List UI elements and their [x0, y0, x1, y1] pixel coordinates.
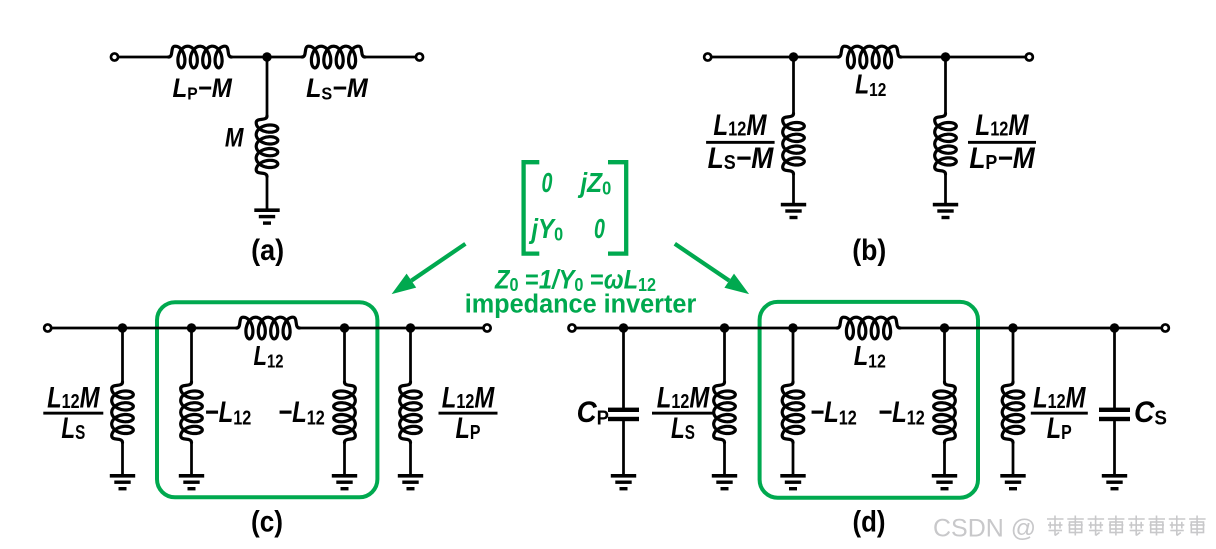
wire from input port to inductor LP-M [119, 56, 169, 59]
node: left junction (circuit b) [789, 52, 798, 61]
wire from shunt inductor to ground (circuit b left) [792, 174, 795, 204]
svg-text:M: M [225, 124, 245, 153]
value label fraction L12M over LP [439, 381, 498, 445]
value label -L12 (circuit c right) [278, 395, 325, 428]
inductor LS-M (series, circuit a) [302, 46, 365, 68]
terminal: circuit (c) output port [484, 324, 491, 331]
ground (circuit c, left -L12 branch) [179, 474, 204, 490]
svg-text:(c): (c) [251, 505, 283, 538]
value label LS-M [306, 72, 369, 104]
caption (d) [853, 505, 886, 538]
value label L12 (circuit d) [854, 341, 886, 371]
node: shunt L12M/LS junction (circuit d) [720, 323, 729, 332]
wire from input port to series inductor L12 (circuit d) [576, 327, 837, 330]
impedance inverter box (circuit d) [760, 302, 978, 498]
value label fraction L12M over LS-M [706, 109, 775, 175]
node: shunt L12M/LP junction (circuit d) [1008, 323, 1017, 332]
wire+inductor -L12 left shunt branch (circuit c) [181, 328, 203, 475]
value label -L12 (circuit d right) [878, 395, 925, 428]
svg-text:LP−M: LP−M [173, 74, 233, 104]
matrix right bracket [608, 162, 626, 253]
value label CP [577, 396, 610, 430]
ground (circuit c, right -L12 branch) [332, 474, 357, 490]
node: junction of LP-M, LS-M and M (circuit a) [262, 52, 271, 61]
wire from inductor L12 to output port (circuit d) [900, 327, 1162, 330]
wire+inductor L12M/LS shunt branch (circuit c) [112, 328, 134, 475]
terminal: circuit (a) output port [416, 53, 423, 60]
svg-text:LP−M: LP−M [969, 142, 1035, 175]
capacitor CP (shunt, circuit d) [608, 408, 639, 422]
value label CS [1134, 396, 1167, 429]
caption (c) [251, 505, 283, 538]
wire from input port to series inductor L12 (circuit c) [52, 327, 237, 330]
inductor M (shunt, circuit a) [256, 116, 278, 177]
wire from capacitor CS to ground [1113, 421, 1116, 475]
capacitor CS (shunt, circuit d) [1099, 408, 1130, 422]
wire from input port to series inductor L12 (circuit b) [712, 56, 838, 59]
wire from capacitor CP to ground [622, 421, 625, 475]
value label L12 (circuit b) [855, 70, 886, 101]
value label -L12 (circuit c left) [205, 395, 252, 428]
node: capacitor CS junction (circuit d) [1110, 323, 1119, 332]
node: shunt L12M/LS junction (circuit c) [118, 323, 127, 332]
wire from shunt inductor to ground (circuit b right) [944, 174, 947, 204]
wire from inductor M to ground [266, 177, 269, 210]
label impedance inverter [465, 290, 697, 318]
wire from inductor LS-M to output port [365, 56, 416, 59]
wire from inductor L12 to output port (circuit c) [300, 327, 484, 330]
value label fraction L12M over LP-M [968, 109, 1036, 175]
wire from inductor L12 to output port (circuit b) [901, 56, 1026, 59]
svg-text:0: 0 [594, 214, 606, 245]
node: shunt L12M/LP junction (circuit c) [406, 323, 415, 332]
node: right junction (circuit b) [941, 52, 950, 61]
svg-text:(b): (b) [852, 234, 886, 268]
wire+inductor L12M/LP shunt branch (circuit c) [400, 328, 422, 475]
svg-text:CSDN @: CSDN @ [933, 515, 1036, 543]
wire+inductor -L12 left shunt branch (circuit d) [782, 328, 804, 475]
ground (circuit d, right -L12 branch) [932, 474, 957, 490]
terminal: circuit (a) input port [111, 53, 118, 60]
svg-text:0: 0 [542, 168, 554, 199]
ground (circuit b right) [933, 203, 958, 219]
node: left -L12 junction (circuit c) [187, 323, 196, 332]
value label LP-M [173, 74, 233, 104]
terminal: circuit (b) input port [704, 53, 711, 60]
matrix entry jZ0 (row1 col2) [578, 167, 612, 199]
ground (circuit d, L12M/LP branch) [1000, 474, 1025, 490]
value label L12 (circuit c) [254, 341, 284, 372]
value label fraction L12M over LS [43, 381, 103, 445]
wire+inductor -L12 right shunt branch (circuit d) [934, 328, 956, 475]
ground (circuit a) [254, 208, 279, 224]
ground (circuit d, CS branch) [1102, 474, 1127, 490]
value label fraction L12M over LS (circuit d) [652, 381, 714, 445]
wire from CS junction down to capacitor CS [1113, 328, 1116, 409]
terminal: circuit (d) output port [1162, 324, 1169, 331]
node: capacitor CP junction (circuit d) [619, 323, 628, 332]
terminal: circuit (c) input port [44, 324, 51, 331]
watermark CSDN (decorative) [933, 515, 1206, 543]
value label fraction L12M over LP (circuit d) [1031, 381, 1088, 445]
terminal: circuit (b) output port [1026, 53, 1033, 60]
wire+inductor L12M/LP shunt branch (circuit d) [1002, 328, 1024, 475]
ground (circuit c, L12M/LP branch) [398, 474, 423, 490]
impedance inverter box (circuit c) [157, 302, 377, 497]
inductor L12 (series, circuit b) [838, 46, 901, 68]
wire from CP junction down to capacitor CP [622, 328, 625, 409]
ground (circuit b left) [781, 203, 806, 219]
inductor L12 (series, circuit c) [237, 317, 300, 339]
caption (a) [251, 234, 284, 268]
caption (b) [852, 234, 886, 268]
svg-text:LS−M: LS−M [708, 142, 774, 175]
ground (circuit d, CP branch) [611, 474, 636, 490]
matrix entry jY0 (row2 col1) [529, 215, 564, 245]
matrix entry 0 (row2 col2) [594, 214, 606, 245]
matrix left bracket [524, 162, 540, 253]
node: right -L12 junction (circuit d) [940, 323, 949, 332]
wire+inductor -L12 right shunt branch (circuit c) [334, 328, 356, 475]
ground (circuit d, L12M/LS branch) [712, 474, 737, 490]
value label -L12 (circuit d left) [810, 395, 857, 428]
ground (circuit d, left -L12 branch) [780, 474, 805, 490]
svg-text:impedance inverter: impedance inverter [465, 290, 697, 318]
node: right -L12 junction (circuit c) [340, 323, 349, 332]
matrix entry 0 (row1 col1) [542, 168, 554, 199]
inductor LP-M (series, circuit a) [169, 46, 232, 68]
svg-text:(a): (a) [251, 234, 284, 268]
arrow from matrix to circuit (c) [392, 244, 466, 294]
inductor L12 (series, circuit d) [837, 317, 900, 339]
ground (circuit c, L12M/LS branch) [110, 474, 135, 490]
svg-text:(d): (d) [853, 505, 886, 538]
svg-text:LS−M: LS−M [306, 72, 369, 104]
equation Z0 = 1/Y0 = wL12 [494, 265, 656, 295]
value label M [225, 124, 245, 153]
inductor L12M/(LP-M) (shunt, circuit b right) [935, 114, 957, 175]
wire from inductor LP-M to inductor LS-M through center node [232, 56, 303, 59]
wire+inductor L12M/LS shunt branch (circuit d) [714, 328, 736, 475]
arrow from matrix to circuit (d) [675, 244, 749, 294]
wire from left junction down to shunt inductor (circuit b left) [792, 57, 795, 114]
terminal: circuit (d) input port [568, 324, 575, 331]
wire from center node down to inductor M [266, 57, 269, 117]
node: left -L12 junction (circuit d) [788, 323, 797, 332]
wire from right junction down to shunt inductor (circuit b right) [944, 57, 947, 114]
inductor L12M/(LS-M) (shunt, circuit b left) [783, 114, 805, 175]
